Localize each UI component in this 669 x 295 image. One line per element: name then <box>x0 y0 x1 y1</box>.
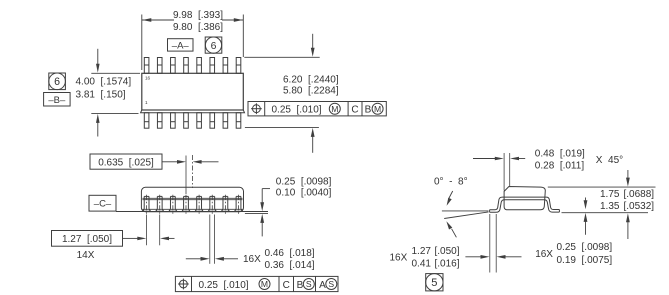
svg-text:16X: 16X <box>535 249 553 260</box>
top view pin 12 (top row) <box>197 58 202 74</box>
angle dim: angled reference line <box>444 212 488 219</box>
basic dim 0.635 box <box>90 154 162 169</box>
svg-text:[.016]: [.016] <box>435 259 460 270</box>
dim 1.27: leader and arrows <box>123 237 139 239</box>
dim 4.00/3.81: arrows <box>97 49 99 65</box>
fcf1 M modifier 2 <box>372 103 383 114</box>
note flag 6 left <box>49 73 66 90</box>
svg-text:0.25 [.010]: 0.25 [.010] <box>272 104 322 115</box>
svg-text:5.80 [.2284]: 5.80 [.2284] <box>283 86 339 97</box>
svg-text:1: 1 <box>145 100 148 105</box>
svg-text:0.25 [.0098]: 0.25 [.0098] <box>276 176 332 187</box>
dim 0.635: leader and arrows <box>162 161 178 163</box>
dim 0.25/0.10: leader bracket <box>262 188 270 190</box>
svg-text:3.81 [.150]: 3.81 [.150] <box>76 90 126 101</box>
svg-text:B: B <box>297 280 304 291</box>
end view: right foot tip <box>558 210 560 213</box>
top view: package body outline <box>142 73 244 110</box>
dim 1.27: extension lines from lead centers <box>146 215 148 246</box>
lead 4 centerline extended <box>185 156 187 195</box>
dim 1.27/0.41: extension lines <box>489 214 491 273</box>
side view lead 5 <box>196 196 198 209</box>
dim 6.20/5.80: extension lines <box>244 56 319 58</box>
top view pin 4 (bottom row) <box>184 113 189 129</box>
top view pin 13 (top row) <box>184 58 189 74</box>
svg-text:A: A <box>319 280 326 291</box>
svg-text:5: 5 <box>431 277 437 289</box>
svg-text:4.00 [.1574]: 4.00 [.1574] <box>76 77 132 88</box>
position symbol <box>178 279 189 290</box>
svg-text:[.0688]: [.0688] <box>624 189 655 200</box>
angle dim: horizontal reference line <box>442 210 489 212</box>
side view lead 6 <box>209 196 211 209</box>
svg-text:0° - 8°: 0° - 8° <box>434 177 468 188</box>
top view pin 1 (bottom row) <box>144 113 149 129</box>
note flag 5 <box>426 274 443 291</box>
dim 1.27/0.41: arrows <box>465 256 481 258</box>
basic dim 1.27 box <box>52 231 123 247</box>
svg-text:6: 6 <box>211 41 217 52</box>
end view: gull-wing lead lower line <box>490 200 560 213</box>
svg-text:X 45°: X 45° <box>596 155 623 166</box>
angle dim: lower leader and arrow <box>452 229 457 238</box>
top view pin 3 (bottom row) <box>171 113 176 129</box>
end view: package body cross-section <box>504 187 545 210</box>
side view: body parting line <box>142 197 242 199</box>
dim 4.00/3.81: extension lines <box>91 72 140 74</box>
side view lead 2 <box>156 196 158 209</box>
top view pin 5 (bottom row) <box>197 113 202 129</box>
svg-text:S: S <box>306 279 312 289</box>
svg-text:0.10 [.0040]: 0.10 [.0040] <box>276 187 332 198</box>
body centerline <box>192 155 194 188</box>
svg-text:0.41: 0.41 <box>412 259 432 270</box>
note flag 6 top <box>205 37 222 53</box>
top view pin 2 (bottom row) <box>157 113 162 129</box>
svg-text:0.36 [.014]: 0.36 [.014] <box>265 260 315 271</box>
datum B <box>44 93 71 107</box>
side view lead 3 <box>169 196 171 209</box>
fcf1 M modifier <box>329 103 340 114</box>
top view pin 14 (top row) <box>171 58 176 74</box>
datum A <box>168 39 194 52</box>
seating plane line (datum C) <box>116 211 268 213</box>
top view pin 6 (bottom row) <box>210 113 215 129</box>
fcf2 M modifier <box>259 279 270 290</box>
svg-text:C: C <box>351 104 358 115</box>
top view pin 7 (bottom row) <box>223 113 228 129</box>
top view pin 11 (top row) <box>210 58 215 74</box>
svg-text:–B–: –B– <box>48 95 66 106</box>
arrow left <box>142 18 151 22</box>
dim 0.46/0.36: extension lines <box>209 215 211 264</box>
fcf2 S modifier 2 <box>326 279 337 290</box>
svg-text:9.98 [.393]: 9.98 [.393] <box>173 10 223 21</box>
angle dim: upper leader and arrow <box>449 191 453 199</box>
svg-text:0.28 [.011]: 0.28 [.011] <box>535 161 585 172</box>
top view pin 10 (top row) <box>223 58 228 74</box>
svg-text:1.27: 1.27 <box>412 246 432 257</box>
side view: package body outline <box>141 187 243 211</box>
svg-text:[.050]: [.050] <box>435 246 460 257</box>
feature control frame 2 <box>175 276 338 291</box>
dim 1.75/1.35: arrows <box>627 170 629 179</box>
side view lead 4 <box>183 196 185 209</box>
top view: body bottom skirt <box>141 110 245 113</box>
svg-text:C: C <box>283 280 290 291</box>
svg-text:9.80 [.386]: 9.80 [.386] <box>173 22 223 33</box>
svg-text:1.75: 1.75 <box>600 189 620 200</box>
top view pin 15 (top row) <box>157 58 162 74</box>
dim 6.20/5.80: arrows <box>312 34 314 49</box>
side view lead 7 <box>222 196 224 209</box>
svg-text:16X: 16X <box>243 254 261 265</box>
position symbol <box>251 103 262 114</box>
dim 0.46/0.36: arrows <box>186 258 202 260</box>
svg-text:1.27 [.050]: 1.27 [.050] <box>62 234 112 245</box>
side view: feet top line <box>142 208 242 210</box>
svg-text:0.48 [.019]: 0.48 [.019] <box>535 149 585 160</box>
svg-text:S: S <box>328 279 334 289</box>
svg-text:6: 6 <box>54 76 60 88</box>
svg-text:M: M <box>374 104 381 114</box>
top view pin 9 (top row) <box>236 58 241 74</box>
feature control frame 1 <box>248 102 386 116</box>
end view: gull-wing lead upper line <box>490 197 560 210</box>
svg-text:0.19 [.0075]: 0.19 [.0075] <box>557 255 613 266</box>
svg-text:0.25 [.010]: 0.25 [.010] <box>199 280 249 291</box>
svg-text:–C–: –C– <box>94 199 112 210</box>
svg-text:M: M <box>261 279 268 289</box>
svg-text:16X: 16X <box>390 252 408 263</box>
dim 9.98/9.80: extension lines <box>141 15 143 71</box>
top view pin 16 (top row) <box>144 58 149 74</box>
top view pin 8 (bottom row) <box>236 113 241 129</box>
side view: body parting line 2 <box>142 199 242 201</box>
svg-text:14X: 14X <box>77 250 95 261</box>
svg-text:B: B <box>365 104 372 115</box>
dim 0.48/0.28: arrows <box>473 158 496 160</box>
arrow right <box>234 18 243 22</box>
dim 1.75/1.35: extension lines <box>548 186 656 188</box>
svg-text:0.46 [.018]: 0.46 [.018] <box>265 248 315 259</box>
datum C box <box>89 195 116 211</box>
dim 0.48/0.28: extension lines <box>503 153 505 191</box>
svg-text:–A–: –A– <box>172 40 190 51</box>
end view: left foot tip <box>489 210 491 213</box>
svg-text:6.20 [.2440]: 6.20 [.2440] <box>283 74 339 85</box>
fcf2 S modifier <box>303 279 314 290</box>
dim 0.25/0.19: arrows <box>585 198 587 202</box>
svg-text:16: 16 <box>145 76 151 81</box>
dim 9.98/9.80: dimension line and arrows <box>142 19 174 21</box>
lead tip plane line <box>245 213 268 215</box>
svg-text:0.25 [.0098]: 0.25 [.0098] <box>557 242 613 253</box>
side view lead 8 <box>235 196 237 209</box>
svg-text:0.635 [.025]: 0.635 [.025] <box>98 157 154 168</box>
svg-text:[.0532]: [.0532] <box>624 201 655 212</box>
svg-text:1.35: 1.35 <box>600 201 620 212</box>
svg-text:M: M <box>331 104 338 114</box>
side view lead 1 <box>143 196 145 209</box>
